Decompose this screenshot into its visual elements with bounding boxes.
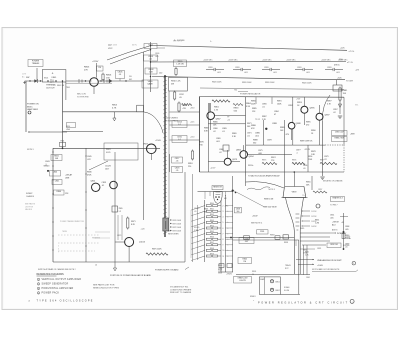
svg-text:R887: R887 <box>262 116 267 118</box>
svg-text:R831: R831 <box>303 250 307 252</box>
svg-text:15K: 15K <box>106 77 110 79</box>
svg-text:R878: R878 <box>311 151 316 153</box>
svg-text:R818: R818 <box>188 163 193 165</box>
svg-text:Q873: Q873 <box>232 159 238 161</box>
svg-text:R891: R891 <box>277 101 282 103</box>
svg-text:.001: .001 <box>273 72 277 74</box>
svg-text:.02: .02 <box>333 112 336 114</box>
svg-text:C843: C843 <box>45 161 50 163</box>
svg-text:1M: 1M <box>243 261 246 263</box>
svg-text:+350V: +350V <box>252 216 258 218</box>
svg-text:C878: C878 <box>267 140 272 142</box>
svg-text:C851: C851 <box>330 215 334 217</box>
svg-text:R875: R875 <box>262 160 266 162</box>
svg-text:ASTIG: ASTIG <box>332 229 338 232</box>
svg-text:R845: R845 <box>210 231 214 233</box>
svg-text:4.7K: 4.7K <box>112 107 117 109</box>
svg-text:+DELAY: +DELAY <box>65 174 73 177</box>
svg-text:1: 1 <box>38 279 39 281</box>
svg-text:R877: R877 <box>320 160 324 162</box>
svg-text:10: 10 <box>223 250 225 252</box>
svg-text:.005: .005 <box>345 229 349 231</box>
svg-text:HORIZONTAL AMPLIFIER: HORIZONTAL AMPLIFIER <box>42 287 74 290</box>
svg-text:R6: R6 <box>99 67 101 69</box>
svg-text:TO PIN 7: TO PIN 7 <box>330 205 337 207</box>
svg-text:R1020: R1020 <box>194 227 199 229</box>
svg-text:C820: C820 <box>297 67 302 69</box>
svg-text:J4: J4 <box>95 265 97 267</box>
svg-text:SEE PARTS: SEE PARTS <box>25 203 36 206</box>
svg-text:R872 100K: R872 100K <box>173 227 182 229</box>
svg-text:R832 1M: R832 1M <box>330 244 338 246</box>
svg-text:R895b: R895b <box>248 165 253 167</box>
svg-text:+150: +150 <box>190 137 194 139</box>
svg-text:R873 100K: R873 100K <box>173 230 182 232</box>
svg-text:VERTICAL OUTPUT AMPLIFIER: VERTICAL OUTPUT AMPLIFIER <box>42 278 82 281</box>
svg-text:PORTION OF POWER REGULATOR BOA: PORTION OF POWER REGULATOR BOARD <box>110 274 152 277</box>
svg-text:R853: R853 <box>112 105 118 107</box>
svg-text:.01: .01 <box>194 211 197 213</box>
svg-text:.022: .022 <box>87 159 91 161</box>
svg-text:C868: C868 <box>219 149 224 151</box>
svg-text:R895: R895 <box>306 122 311 124</box>
svg-text:RESISTOR: RESISTOR <box>213 187 222 189</box>
svg-text:100K: 100K <box>277 103 282 105</box>
svg-text:TRACE: TRACE <box>285 264 292 267</box>
svg-text:7: 7 <box>58 251 59 253</box>
svg-text:P801: P801 <box>260 231 264 233</box>
svg-text:R847: R847 <box>210 242 214 244</box>
svg-text:+225V DEC: +225V DEC <box>286 60 296 62</box>
svg-text:R890: R890 <box>251 101 256 103</box>
svg-text:C845: C845 <box>87 156 92 158</box>
svg-text:V822: V822 <box>108 48 112 50</box>
svg-text:Q867: Q867 <box>216 119 222 121</box>
svg-text:.001: .001 <box>306 72 310 74</box>
svg-text:5: 5 <box>223 222 224 224</box>
svg-text:3: 3 <box>38 288 39 290</box>
svg-text:R842: R842 <box>210 214 214 216</box>
svg-text:C809: C809 <box>155 53 159 55</box>
svg-text:R859: R859 <box>270 235 275 237</box>
svg-text:C879: C879 <box>324 156 329 158</box>
svg-text:C897: C897 <box>333 109 338 111</box>
svg-text:4: 4 <box>223 217 224 219</box>
svg-text:R820 100K: R820 100K <box>265 82 275 84</box>
svg-text:D4 1K: D4 1K <box>312 226 318 228</box>
svg-text:+225V DEC: +225V DEC <box>262 60 272 62</box>
svg-text:C892: C892 <box>288 105 293 107</box>
svg-text:NOTE 5: NOTE 5 <box>269 189 276 191</box>
svg-text:L840: L840 <box>53 172 57 174</box>
svg-text:50: 50 <box>252 274 254 276</box>
svg-text:R849: R849 <box>210 253 214 255</box>
svg-text:SR843: SR843 <box>44 166 50 168</box>
svg-text:POWER ON: POWER ON <box>27 104 39 106</box>
svg-text:+100V: +100V <box>345 237 351 239</box>
svg-text:.047: .047 <box>245 241 249 243</box>
svg-text:.005: .005 <box>155 56 159 58</box>
svg-text:R806: R806 <box>106 75 112 77</box>
svg-text:6AU8: 6AU8 <box>147 83 153 86</box>
svg-text:R841: R841 <box>210 209 214 211</box>
svg-text:.05: .05 <box>176 161 179 163</box>
svg-text:SEE PARTS LIST FOR: SEE PARTS LIST FOR <box>93 284 115 287</box>
svg-text:C869: C869 <box>345 244 349 246</box>
svg-text:220K: 220K <box>251 103 256 105</box>
svg-text:R896: R896 <box>311 130 316 132</box>
svg-text:SCALE: SCALE <box>284 286 290 289</box>
svg-text:(REG): (REG) <box>334 65 340 67</box>
svg-text:POWER TRANSFORMER T801: POWER TRANSFORMER T801 <box>60 220 84 223</box>
svg-text:POWER REGULATOR: POWER REGULATOR <box>240 93 261 96</box>
svg-text:CONDITIONS OPERATE: CONDITIONS OPERATE <box>170 288 192 291</box>
svg-text:+100V: +100V <box>317 265 324 267</box>
svg-text:R899 C899 1K: R899 C899 1K <box>300 141 313 143</box>
svg-text:LIGHTS: LIGHTS <box>239 280 246 282</box>
svg-text:R868: R868 <box>204 128 209 130</box>
svg-text:TO CRT: TO CRT <box>346 81 354 83</box>
svg-text:TP-12: TP-12 <box>255 119 260 121</box>
svg-text:.22: .22 <box>324 159 327 161</box>
svg-text:ILLUM: ILLUM <box>284 290 290 292</box>
svg-text:+120: +120 <box>141 229 145 231</box>
svg-text:601: 601 <box>129 79 132 81</box>
svg-text:+225V UNREG: +225V UNREG <box>165 118 178 120</box>
svg-text:SEMICONDUCTOR TYPES: SEMICONDUCTOR TYPES <box>93 287 120 289</box>
svg-text:R851: R851 <box>315 220 319 222</box>
svg-text:+150V: +150V <box>155 140 162 142</box>
svg-text:R856: R856 <box>308 156 312 158</box>
svg-text:R840: R840 <box>56 191 61 193</box>
svg-text:5W: 5W <box>171 83 174 85</box>
svg-text:SEE NOTE: SEE NOTE <box>173 41 183 43</box>
svg-text:Q854: Q854 <box>91 181 96 183</box>
svg-text:C857: C857 <box>318 189 322 191</box>
svg-text:B+: B+ <box>210 41 212 43</box>
svg-text:V859: V859 <box>292 192 298 194</box>
svg-text:.001: .001 <box>244 72 248 74</box>
svg-text:C869: C869 <box>216 138 221 140</box>
svg-text:R820 100K: R820 100K <box>302 83 312 85</box>
svg-text:2.2M: 2.2M <box>315 222 319 224</box>
svg-text:.001: .001 <box>217 72 221 74</box>
svg-text:7805: 7805 <box>119 208 123 210</box>
svg-text:7: 7 <box>223 233 224 235</box>
svg-text:C875: C875 <box>258 150 263 152</box>
svg-text:POWER PACK: POWER PACK <box>42 292 60 295</box>
svg-text:C820: C820 <box>208 67 213 69</box>
svg-text:C883 .047: C883 .047 <box>335 132 344 134</box>
svg-text:Q888: Q888 <box>296 123 302 125</box>
svg-text:+85: +85 <box>341 222 344 224</box>
svg-text:Q894: Q894 <box>249 156 255 158</box>
svg-text:+350: +350 <box>190 108 194 110</box>
svg-text:LINE: LINE <box>65 177 70 179</box>
svg-text:+225: +225 <box>190 122 194 124</box>
svg-text:SW: SW <box>26 77 29 79</box>
svg-text:4: 4 <box>38 293 39 295</box>
svg-text:1.2K 5W: 1.2K 5W <box>176 64 183 66</box>
svg-text:2.7K: 2.7K <box>214 109 219 111</box>
svg-text:47: 47 <box>274 114 276 116</box>
svg-text:+225V DEC: +225V DEC <box>338 60 348 62</box>
svg-text:R869: R869 <box>232 133 237 135</box>
svg-text:SWEEP: SWEEP <box>26 193 33 195</box>
svg-text:R848: R848 <box>218 265 222 267</box>
svg-text:R801: R801 <box>252 271 256 273</box>
svg-text:.001: .001 <box>216 141 220 143</box>
svg-text:Q1013: Q1013 <box>139 242 146 244</box>
svg-text:F801: F801 <box>52 77 58 79</box>
svg-text:B801: B801 <box>276 282 280 284</box>
svg-text:TIME 500 V/DIV: TIME 500 V/DIV <box>263 207 277 209</box>
svg-text:.05: .05 <box>176 170 179 172</box>
svg-text:R897: R897 <box>327 101 332 103</box>
svg-text:CUTOUT: CUTOUT <box>46 87 55 89</box>
svg-text:R866: R866 <box>213 122 218 124</box>
svg-text:R844: R844 <box>210 225 214 227</box>
svg-text:+225V: +225V <box>92 61 99 63</box>
svg-text:R883 270K: R883 270K <box>335 138 345 140</box>
svg-text:C856: C856 <box>303 165 307 167</box>
svg-text:C877: C877 <box>296 150 301 152</box>
svg-text:MOUNTED ON CHASSIS: MOUNTED ON CHASSIS <box>323 180 343 183</box>
svg-text:+225V DEC: +225V DEC <box>228 60 238 62</box>
svg-text:-12.2V: -12.2V <box>304 149 311 151</box>
svg-text:-12.2V: -12.2V <box>210 168 216 170</box>
svg-text:6: 6 <box>58 248 59 250</box>
svg-text:LAMP B801: LAMP B801 <box>27 108 39 111</box>
svg-text:R840: R840 <box>210 203 214 205</box>
svg-text:R820 100K: R820 100K <box>242 82 252 84</box>
svg-text:NOTCH MAY OCCUR SEE NOTE: NOTCH MAY OCCUR SEE NOTE <box>312 268 340 271</box>
svg-text:D1 1K: D1 1K <box>312 211 318 213</box>
svg-text:60 Hz: 60 Hz <box>132 45 137 47</box>
svg-text:C831: C831 <box>317 248 321 250</box>
svg-text:R846: R846 <box>87 172 92 174</box>
svg-text:1.2: 1.2 <box>119 211 122 213</box>
svg-text:SWEEP GENERATOR: SWEEP GENERATOR <box>42 283 69 286</box>
svg-text:C102S: C102S <box>105 166 112 168</box>
svg-text:R858: R858 <box>284 242 288 244</box>
svg-text:NOTE 3: NOTE 3 <box>27 149 34 151</box>
svg-text:.01: .01 <box>345 246 348 248</box>
svg-text:R885: R885 <box>252 108 257 110</box>
svg-text:2: 2 <box>223 205 224 207</box>
svg-text:2: 2 <box>353 263 354 265</box>
svg-text:POWER SUPPLY BOARD: POWER SUPPLY BOARD <box>155 268 179 271</box>
svg-text:R846: R846 <box>210 237 214 239</box>
svg-text:3: 3 <box>223 211 224 213</box>
svg-text:+GEOM: +GEOM <box>332 222 339 224</box>
svg-text:470: 470 <box>306 124 309 126</box>
svg-text:C871: C871 <box>247 133 252 135</box>
svg-text:LINE 115V: LINE 115V <box>108 45 118 47</box>
svg-text:.005: .005 <box>330 217 334 219</box>
svg-text:C841: C841 <box>55 181 60 183</box>
svg-text:.01: .01 <box>303 168 306 170</box>
svg-text:.01: .01 <box>262 106 265 108</box>
svg-text:C820: C820 <box>264 67 269 69</box>
svg-text:R820 100K: R820 100K <box>212 82 222 84</box>
svg-text:THERMAL: THERMAL <box>46 84 57 87</box>
svg-text:R875 100K: R875 100K <box>152 249 162 251</box>
svg-text:1017: 1017 <box>105 168 109 170</box>
svg-text:220: 220 <box>188 166 191 168</box>
svg-text:R871: R871 <box>131 221 136 223</box>
svg-text:B802: B802 <box>276 290 280 292</box>
svg-text:TOTAL VOLT ACCELERATOR 8600V: TOTAL VOLT ACCELERATOR 8600V <box>248 175 280 178</box>
svg-text:LIST FOR: LIST FOR <box>25 206 34 208</box>
svg-text:R843: R843 <box>210 220 214 222</box>
svg-text:27K: 27K <box>84 69 88 71</box>
svg-text:RUN LEFT TO CHASSIS: RUN LEFT TO CHASSIS <box>170 291 192 294</box>
svg-text:R876: R876 <box>292 160 296 162</box>
svg-text:T801: T801 <box>66 87 70 89</box>
svg-text:8: 8 <box>223 239 224 241</box>
svg-text:REFERENCE DIAGRAMS:: REFERENCE DIAGRAMS: <box>37 273 65 276</box>
svg-text:F801 2A: F801 2A <box>57 84 65 87</box>
svg-text:9: 9 <box>223 245 224 247</box>
svg-text:R889: R889 <box>280 127 285 129</box>
svg-text:SWITCH AT REAR OF CHASSIS SEE: SWITCH AT REAR OF CHASSIS SEE NOTE 2 <box>38 268 76 271</box>
svg-text:470K: 470K <box>87 174 92 176</box>
svg-text:F846: F846 <box>61 141 65 143</box>
svg-text:Q895: Q895 <box>310 108 316 110</box>
svg-text:C866: C866 <box>213 128 218 130</box>
svg-text:ADJ: ADJ <box>332 223 335 226</box>
svg-text:+: + <box>52 72 54 76</box>
svg-text:SEL: SEL <box>355 105 358 107</box>
svg-text:300: 300 <box>236 211 239 213</box>
svg-text:ROT: ROT <box>285 268 289 270</box>
svg-text:C820: C820 <box>327 67 332 69</box>
svg-text:R810 1.2K: R810 1.2K <box>171 81 181 83</box>
svg-text:HEATER 6.3: HEATER 6.3 <box>332 197 342 200</box>
svg-text:.068: .068 <box>258 153 262 155</box>
svg-text:-3750V: -3750V <box>226 274 233 276</box>
svg-text:+225V DEC: +225V DEC <box>321 60 331 62</box>
svg-text:5: 5 <box>58 246 59 248</box>
svg-text:R870 100K: R870 100K <box>173 220 182 222</box>
svg-text:R848: R848 <box>210 248 214 250</box>
svg-text:R888: R888 <box>253 140 258 142</box>
svg-text:R838 1.5M: R838 1.5M <box>264 199 274 201</box>
svg-text:R805: R805 <box>84 67 90 69</box>
svg-text:POWER REGULATOR & CRT CIRCUIT: POWER REGULATOR & CRT CIRCUIT <box>258 301 349 304</box>
svg-text:S801: S801 <box>44 78 48 80</box>
svg-text:D2 1K: D2 1K <box>312 216 318 218</box>
svg-text:VOLTAGES NOT WIL: VOLTAGES NOT WIL <box>170 286 188 289</box>
svg-text:R874: R874 <box>271 157 276 159</box>
svg-text:330: 330 <box>253 142 256 144</box>
svg-text:.02: .02 <box>219 152 222 154</box>
svg-text:TYPE 564 OSCILLOSCOPE: TYPE 564 OSCILLOSCOPE <box>37 300 94 303</box>
svg-text:11: 11 <box>223 256 225 258</box>
svg-text:.01: .01 <box>247 135 250 137</box>
svg-text:6: 6 <box>223 228 224 230</box>
svg-text:TERM: TERM <box>62 231 67 233</box>
svg-text:SEE NOTE 4: SEE NOTE 4 <box>251 223 262 225</box>
svg-text:GRAT: GRAT <box>260 278 265 281</box>
svg-text:CHASSIS: CHASSIS <box>26 195 35 198</box>
svg-text:UNBLANKING FROM SWP: UNBLANKING FROM SWP <box>317 259 342 262</box>
svg-text:C853: C853 <box>102 182 107 184</box>
svg-text:SEC 6.3V: SEC 6.3V <box>77 94 86 96</box>
svg-text:C890: C890 <box>262 104 267 106</box>
svg-text:INDIC: INDIC <box>27 106 33 108</box>
svg-text:C868: C868 <box>345 226 349 228</box>
svg-text:C820: C820 <box>235 67 240 69</box>
svg-text:R871: R871 <box>247 123 252 125</box>
svg-text:T30: T30 <box>234 90 237 92</box>
svg-text:2: 2 <box>38 284 39 286</box>
svg-text:TRANSF: TRANSF <box>32 62 40 65</box>
svg-text:.001: .001 <box>336 72 340 74</box>
svg-text:V847: V847 <box>143 144 149 146</box>
svg-text:3.9K: 3.9K <box>246 106 251 108</box>
svg-text:+88V: +88V <box>350 134 355 136</box>
svg-text:RESTORER: RESTORER <box>168 233 179 235</box>
svg-text:C801: C801 <box>306 277 310 279</box>
svg-text:.1: .1 <box>296 152 298 154</box>
svg-text:SW801: SW801 <box>250 296 256 298</box>
svg-text:R855: R855 <box>306 182 311 184</box>
svg-text:.02: .02 <box>213 131 216 133</box>
svg-text:TO HTR PIN: TO HTR PIN <box>77 96 89 98</box>
svg-text:Q897: Q897 <box>325 115 331 117</box>
svg-text:+225V DEC: +225V DEC <box>203 60 213 62</box>
svg-text:C873: C873 <box>117 235 121 237</box>
svg-text:+12: +12 <box>227 119 230 121</box>
svg-text:R871 100K: R871 100K <box>173 223 182 225</box>
svg-text:.01: .01 <box>102 185 105 187</box>
svg-text:VALUES: VALUES <box>25 208 33 211</box>
svg-text:C884: C884 <box>274 111 279 113</box>
